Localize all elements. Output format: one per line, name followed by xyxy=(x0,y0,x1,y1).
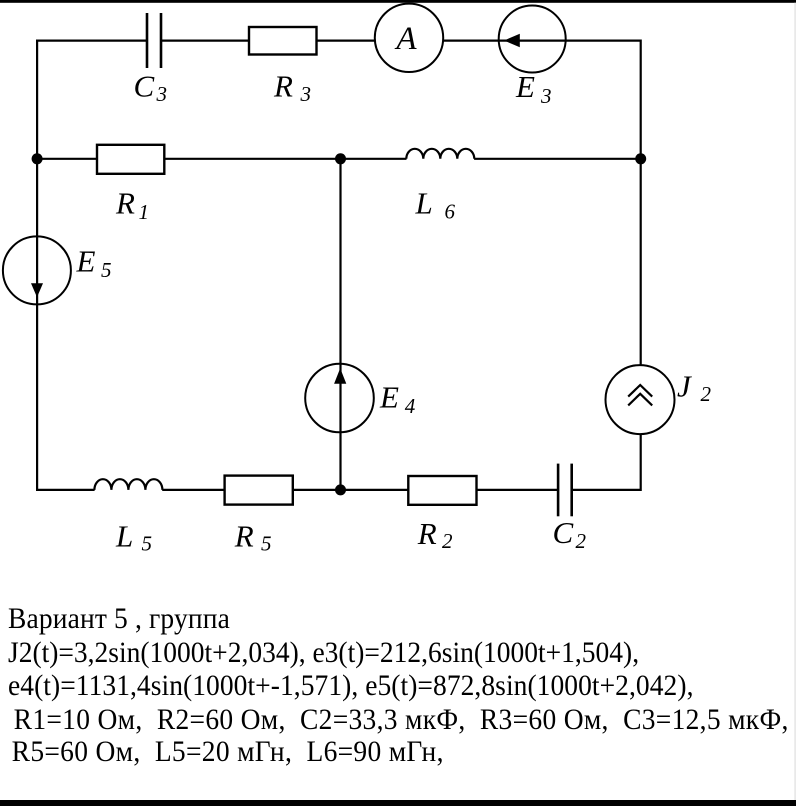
right edge gray strip xyxy=(794,3,796,800)
middle vertical wire (through E4) xyxy=(339,159,341,490)
label E5 xyxy=(76,244,112,283)
wire row2 right of L6 xyxy=(474,158,641,160)
wire bottom left of L5 xyxy=(36,489,94,491)
wire C2 to bottom-right corner xyxy=(572,489,641,491)
label R2 xyxy=(417,516,453,553)
node bottom middle xyxy=(335,484,346,495)
resistor R2 xyxy=(408,476,476,505)
right wire lower segment xyxy=(640,434,642,491)
node row2 right xyxy=(635,153,646,164)
wire row2 left of L6 xyxy=(36,158,406,160)
top border bar xyxy=(0,0,796,3)
svg-text:2: 2 xyxy=(576,529,587,553)
svg-text:L: L xyxy=(415,186,433,221)
svg-text:C: C xyxy=(553,515,574,550)
resistor R1 xyxy=(97,145,164,174)
current source J2 xyxy=(606,365,675,434)
svg-text:C: C xyxy=(134,69,155,104)
svg-text:R: R xyxy=(115,186,135,221)
inductor L6 xyxy=(406,149,474,159)
wire R3 to ammeter xyxy=(317,39,376,41)
label E4 xyxy=(379,379,416,418)
label R1 xyxy=(115,186,149,225)
ammeter A xyxy=(375,4,443,72)
svg-text:5: 5 xyxy=(101,258,112,282)
wire top-left to C3 xyxy=(36,39,147,41)
capacitor C2 xyxy=(558,464,572,517)
source E4 xyxy=(305,364,374,433)
label E3 xyxy=(515,69,552,108)
resistor R3 xyxy=(249,27,317,55)
label C3 xyxy=(134,69,168,107)
wire L5 to C2 xyxy=(162,489,558,491)
label C2 xyxy=(553,515,587,553)
resistor R5 xyxy=(225,476,293,505)
bottom border bar xyxy=(0,800,796,806)
capacitor C3 xyxy=(147,13,161,68)
label L6 xyxy=(415,186,456,224)
svg-text:L: L xyxy=(115,519,133,554)
node row2 middle xyxy=(335,153,346,164)
svg-text:E: E xyxy=(515,69,535,104)
svg-text:5: 5 xyxy=(142,532,153,556)
svg-text:R: R xyxy=(417,516,437,551)
svg-text:6: 6 xyxy=(445,199,456,223)
label R3 xyxy=(273,69,311,107)
inductor L5 xyxy=(94,479,162,490)
node row2 left xyxy=(32,153,43,164)
svg-text:1: 1 xyxy=(139,200,150,224)
svg-text:А: А xyxy=(394,21,417,57)
svg-text:2: 2 xyxy=(442,529,453,553)
left wire (through E5) xyxy=(36,40,38,492)
svg-text:3: 3 xyxy=(540,84,552,108)
source E3 xyxy=(499,6,566,73)
label L5 xyxy=(115,519,152,556)
right wire upper segment xyxy=(640,40,642,366)
svg-text:E: E xyxy=(379,379,399,414)
parameter text block xyxy=(8,601,230,635)
svg-text:5: 5 xyxy=(261,532,272,556)
svg-text:2: 2 xyxy=(701,382,712,406)
label R5 xyxy=(234,519,272,556)
svg-text:3: 3 xyxy=(156,82,168,106)
source E5 xyxy=(3,236,71,304)
wire C3 to R3 xyxy=(161,39,249,41)
svg-text:3: 3 xyxy=(300,82,312,106)
svg-text:R: R xyxy=(234,519,254,554)
svg-text:J: J xyxy=(677,369,692,404)
wire ammeter to top-right corner (through E3) xyxy=(443,39,641,41)
svg-text:4: 4 xyxy=(405,394,416,418)
svg-text:R: R xyxy=(273,69,293,104)
svg-text:E: E xyxy=(76,244,96,279)
label J2 xyxy=(677,369,712,407)
